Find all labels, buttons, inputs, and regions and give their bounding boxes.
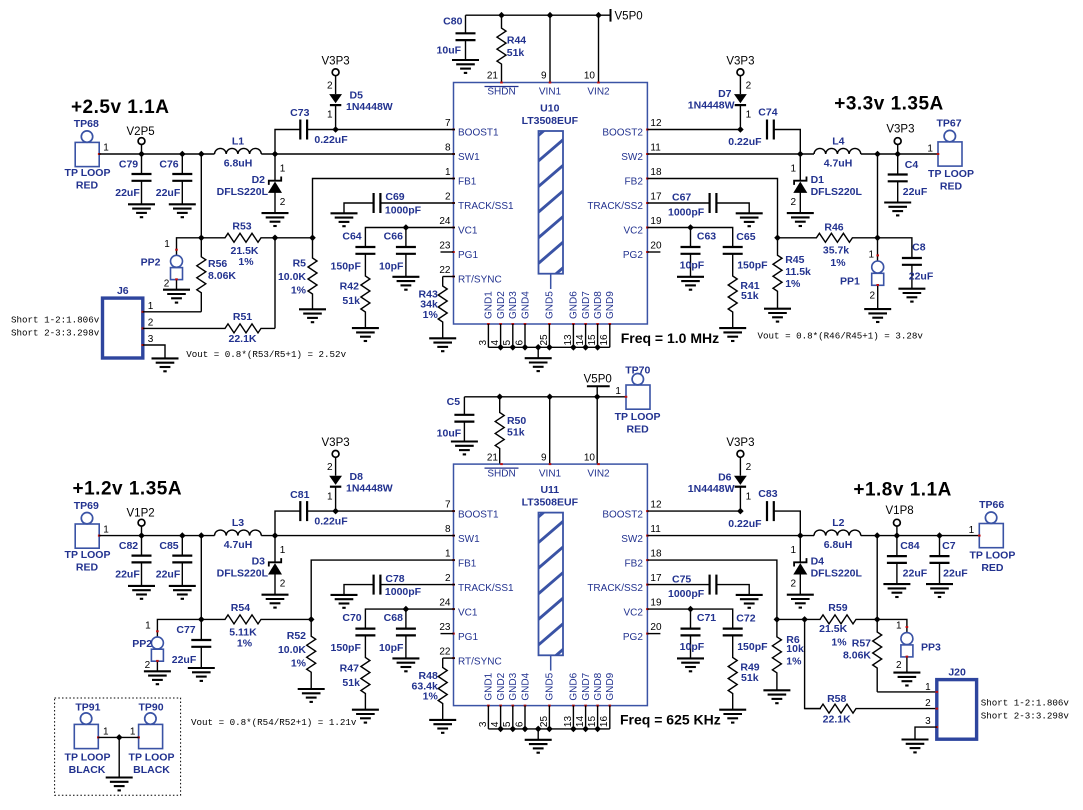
svg-text:7: 7 <box>445 118 451 129</box>
ground for R41 <box>719 328 746 341</box>
junction R58 tap <box>801 616 808 623</box>
svg-text:5.11K: 5.11K <box>229 627 257 639</box>
wire C74 down to SW2 node <box>774 130 801 155</box>
wire test points to ground <box>118 737 120 777</box>
svg-text:0.22uF: 0.22uF <box>728 518 762 530</box>
svg-text:21.5K: 21.5K <box>230 245 258 257</box>
svg-text:2: 2 <box>280 197 286 208</box>
junction V2P5/C79 <box>138 151 145 158</box>
svg-text:16: 16 <box>599 716 610 728</box>
svg-text:13: 13 <box>563 334 574 346</box>
terminal V3P3 at D7 <box>726 56 754 95</box>
svg-text:VC1: VC1 <box>458 607 478 618</box>
svg-text:FB2: FB2 <box>625 177 644 188</box>
svg-text:51k: 51k <box>507 427 525 439</box>
svg-text:GND6: GND6 <box>569 291 580 319</box>
svg-text:22: 22 <box>439 265 451 276</box>
svg-text:R56: R56 <box>208 258 227 270</box>
ground for J6 pin 3 <box>152 358 179 371</box>
svg-text:+3.3v 1.35A: +3.3v 1.35A <box>834 94 944 115</box>
svg-text:R42: R42 <box>340 281 359 293</box>
svg-text:1N4448W: 1N4448W <box>346 101 393 113</box>
junction SW2 node <box>797 151 804 158</box>
junction dots on ground bus <box>497 344 601 351</box>
svg-text:RED: RED <box>981 562 1004 574</box>
svg-text:PP1: PP1 <box>840 275 860 287</box>
test point TP69 TP LOOP RED <box>65 500 111 574</box>
svg-text:1: 1 <box>927 144 933 155</box>
svg-text:V1P2: V1P2 <box>127 508 155 520</box>
svg-text:1000pF: 1000pF <box>668 206 705 218</box>
resistor R58 22.1K <box>805 693 937 726</box>
svg-text:GND1: GND1 <box>484 291 495 319</box>
svg-text:1: 1 <box>746 110 752 121</box>
svg-text:2: 2 <box>145 660 151 671</box>
svg-text:C8: C8 <box>912 242 926 254</box>
junction R5/FB1 <box>309 235 316 242</box>
resistor R46 35.7k 1% <box>778 222 878 269</box>
capacitor C68 10pF <box>379 609 416 658</box>
ground for C5 <box>451 442 478 455</box>
svg-text:0.22uF: 0.22uF <box>314 134 348 146</box>
svg-text:R5: R5 <box>293 258 307 270</box>
svg-text:TRACK/SS2: TRACK/SS2 <box>587 583 643 594</box>
svg-text:C66: C66 <box>384 231 403 243</box>
pin loop PP1 <box>840 238 884 309</box>
ground for C77 <box>188 668 215 681</box>
svg-text:L2: L2 <box>832 517 844 529</box>
wire FB2 pin 18 to divider U11 <box>647 560 777 619</box>
svg-text:1%: 1% <box>237 638 253 650</box>
capacitor C4 22uF <box>888 154 928 203</box>
wire PG2 stub pin 20 <box>647 633 660 635</box>
svg-text:1000pF: 1000pF <box>385 205 422 217</box>
capacitor C84 22uF <box>887 536 928 585</box>
test point TP91 TP LOOP BLACK <box>65 702 111 776</box>
svg-text:150pF: 150pF <box>331 642 362 654</box>
junction VIN2/TP70 on U11 rail <box>594 394 601 401</box>
resistor R41 51k <box>728 254 760 328</box>
svg-text:2: 2 <box>746 81 752 92</box>
svg-text:FB1: FB1 <box>458 177 477 188</box>
capacitor C64 150pF <box>331 231 376 273</box>
svg-text:C68: C68 <box>384 612 403 624</box>
svg-text:17: 17 <box>650 191 662 202</box>
capacitor C85 22uF <box>156 536 193 586</box>
svg-text:10pF: 10pF <box>680 260 705 272</box>
svg-text:2: 2 <box>164 278 170 289</box>
wire VC2 pin 19 to C63/C65 <box>647 228 732 248</box>
capacitor C63 10pF <box>680 228 717 277</box>
svg-text:0.22uF: 0.22uF <box>314 516 348 528</box>
svg-text:1%: 1% <box>786 655 802 667</box>
svg-text:1000pF: 1000pF <box>385 586 422 598</box>
resistor R47 51k <box>340 635 370 709</box>
ground for R43 <box>429 338 456 351</box>
svg-text:TP90: TP90 <box>138 702 163 714</box>
svg-text:V5P0: V5P0 <box>615 10 643 22</box>
wire VIN2 pin 10 U11 <box>596 397 598 464</box>
svg-text:TP LOOP: TP LOOP <box>969 550 1015 562</box>
wire SW1 node up to C73 <box>275 130 300 155</box>
ground for C80 <box>452 60 479 73</box>
capacitor C82 22uF <box>115 536 151 586</box>
resistor R50 51k <box>495 397 526 464</box>
resistor R49 51k <box>728 635 760 709</box>
svg-text:D6: D6 <box>718 472 732 484</box>
wire L3 to SW1 pin 8 U11 <box>261 535 455 537</box>
svg-text:1N4448W: 1N4448W <box>688 483 735 495</box>
ground for D3 <box>262 595 289 608</box>
ground for C84 <box>883 584 910 597</box>
svg-text:14: 14 <box>575 716 586 728</box>
svg-text:+1.2v 1.35A: +1.2v 1.35A <box>73 479 183 500</box>
svg-text:22uF: 22uF <box>156 569 181 581</box>
junction SW1 node U11 <box>272 532 279 539</box>
diode D2 DFLS220L <box>217 154 286 213</box>
ground for R49 <box>719 710 746 723</box>
svg-text:18: 18 <box>650 549 662 560</box>
junction R52/FB1 U11 <box>308 616 315 623</box>
junction SW1 node <box>272 151 279 158</box>
diode D3 DFLS220L <box>217 536 286 595</box>
svg-text:TP LOOP: TP LOOP <box>129 751 175 763</box>
terminal V1P2 <box>127 508 155 536</box>
svg-text:22uF: 22uF <box>909 270 934 282</box>
svg-text:1: 1 <box>868 249 874 260</box>
svg-text:GND5: GND5 <box>545 291 556 319</box>
wire VC1 pin 24 to C70/C68 <box>365 609 455 629</box>
capacitor C78 1000pF <box>344 573 455 598</box>
ground for C4 <box>884 203 911 216</box>
svg-text:R44: R44 <box>507 35 526 47</box>
terminal V2P5 <box>127 126 155 154</box>
svg-text:15: 15 <box>587 334 598 346</box>
ground for PP2 <box>163 290 190 303</box>
ground for R42 <box>352 328 379 341</box>
svg-text:23: 23 <box>439 622 451 633</box>
svg-text:1%: 1% <box>423 690 439 702</box>
svg-text:13: 13 <box>563 716 574 728</box>
capacitor C77 22uF <box>172 619 212 668</box>
svg-text:22uF: 22uF <box>115 569 140 581</box>
svg-text:1N4448W: 1N4448W <box>688 100 735 112</box>
svg-text:DFLS220L: DFLS220L <box>217 186 269 198</box>
terminal V3P3 at D8 <box>322 437 350 476</box>
svg-text:C7: C7 <box>942 540 956 552</box>
svg-text:DFLS220L: DFLS220L <box>811 568 863 580</box>
wire GND pins to ground bus <box>488 706 609 740</box>
svg-text:1N4448W: 1N4448W <box>346 483 393 495</box>
svg-text:GND4: GND4 <box>520 672 531 700</box>
svg-text:10.0K: 10.0K <box>278 271 306 283</box>
wire FB1 pin 1 to divider U11 <box>311 560 455 619</box>
junction TP91/TP90 ground <box>116 734 123 741</box>
junction R59/R57/PP3 <box>874 616 881 623</box>
svg-text:1: 1 <box>615 386 621 397</box>
capacitor C81 0.22uF <box>290 489 348 528</box>
svg-text:TRACK/SS1: TRACK/SS1 <box>458 201 514 212</box>
test point TP66 TP LOOP RED <box>969 499 1016 574</box>
junction C66 on VC1 <box>403 224 410 231</box>
svg-text:1: 1 <box>164 239 170 250</box>
svg-text:6.8uH: 6.8uH <box>824 539 853 551</box>
svg-text:R51: R51 <box>233 311 252 323</box>
svg-text:1%: 1% <box>831 636 847 648</box>
svg-text:10uF: 10uF <box>437 427 462 439</box>
svg-text:20: 20 <box>650 622 662 633</box>
junction C76 <box>179 151 186 158</box>
svg-text:51k: 51k <box>507 47 525 59</box>
svg-text:0.22uF: 0.22uF <box>728 136 762 148</box>
op-amp U10 LT3508EUF dual switching regulator IC body <box>439 71 662 346</box>
svg-text:R58: R58 <box>827 693 846 705</box>
svg-text:RT/SYNC: RT/SYNC <box>458 656 502 667</box>
junction R46/PP1/C8 <box>874 235 881 242</box>
svg-text:TP91: TP91 <box>75 702 100 714</box>
wire J6 pin 3 to ground <box>143 345 165 358</box>
svg-text:V5P0: V5P0 <box>584 373 612 385</box>
ground for U11 GND bus <box>525 740 552 753</box>
svg-text:C72: C72 <box>736 613 755 625</box>
svg-text:R47: R47 <box>340 662 359 674</box>
svg-text:1: 1 <box>280 545 286 556</box>
svg-text:U10: U10 <box>540 103 559 115</box>
junction R44 on V5P0 rail <box>498 12 505 19</box>
wire FB2 pin 18 to divider <box>647 179 777 238</box>
svg-text:1: 1 <box>746 491 752 502</box>
svg-text:12: 12 <box>650 500 662 511</box>
svg-text:RT/SYNC: RT/SYNC <box>458 275 502 286</box>
svg-text:GND3: GND3 <box>508 291 519 319</box>
svg-text:22uF: 22uF <box>903 186 928 198</box>
svg-text:TP LOOP: TP LOOP <box>65 167 111 179</box>
svg-text:8.06K: 8.06K <box>843 649 871 661</box>
ground for C78 <box>331 595 358 608</box>
resistor R57 8.06K <box>843 619 882 692</box>
ground for C66 <box>392 277 419 290</box>
junction dots on ground bus <box>497 726 601 733</box>
wire feedback tap down to R53 <box>200 154 202 238</box>
svg-text:BLACK: BLACK <box>69 764 106 776</box>
wire BOOST2 pin 12 to D7 <box>647 129 740 131</box>
svg-text:VC2: VC2 <box>623 607 643 618</box>
svg-text:DFLS220L: DFLS220L <box>811 186 863 198</box>
diode D1 DFLS220L <box>790 154 862 213</box>
svg-text:BOOST2: BOOST2 <box>602 509 643 520</box>
svg-text:SHDN: SHDN <box>487 87 515 98</box>
svg-text:2: 2 <box>445 191 451 202</box>
capacitor C65 150pF <box>723 231 768 272</box>
inductor L2 6.8uH <box>814 517 861 551</box>
svg-text:2: 2 <box>148 318 154 329</box>
junction V1P2/C82 <box>138 532 145 539</box>
svg-text:Short 1-2:1.806v: Short 1-2:1.806v <box>11 315 100 326</box>
svg-text:LT3508EUF: LT3508EUF <box>522 115 579 127</box>
svg-text:C80: C80 <box>443 16 462 28</box>
svg-text:TRACK/SS1: TRACK/SS1 <box>458 583 514 594</box>
svg-text:V3P3: V3P3 <box>726 56 754 68</box>
capacitor C7 22uF <box>930 536 969 585</box>
ground for C67 <box>736 213 763 226</box>
svg-text:PP2: PP2 <box>141 257 161 269</box>
svg-text:SW2: SW2 <box>621 534 643 545</box>
terminal V3P3 output <box>886 123 914 154</box>
wire FB1 pin 1 to divider <box>313 179 456 238</box>
svg-text:Freq = 1.0 MHz: Freq = 1.0 MHz <box>621 330 719 346</box>
ground for D2 <box>262 213 289 226</box>
wire feedback tap down to R54 <box>200 536 202 620</box>
svg-text:GND8: GND8 <box>593 672 604 700</box>
svg-text:SHDN: SHDN <box>487 468 515 479</box>
note short options for J20 <box>981 698 1070 722</box>
svg-text:150pF: 150pF <box>331 261 362 273</box>
svg-text:GND2: GND2 <box>496 291 507 319</box>
svg-text:VIN1: VIN1 <box>539 87 562 98</box>
svg-text:V1P8: V1P8 <box>886 505 914 517</box>
svg-text:C69: C69 <box>385 191 404 203</box>
svg-text:V3P3: V3P3 <box>886 123 914 135</box>
junction R45/R46 <box>774 235 781 242</box>
ground for C79 <box>128 204 155 217</box>
svg-text:19: 19 <box>650 598 662 609</box>
svg-text:22: 22 <box>439 647 451 658</box>
svg-text:51k: 51k <box>741 672 759 684</box>
svg-text:GND2: GND2 <box>496 672 507 700</box>
svg-text:TP LOOP: TP LOOP <box>65 751 111 763</box>
ground for R5 <box>299 309 326 322</box>
svg-text:1%: 1% <box>785 278 801 290</box>
test point TP90 TP LOOP BLACK <box>129 702 175 776</box>
svg-text:VC2: VC2 <box>623 226 643 237</box>
svg-text:R52: R52 <box>287 630 306 642</box>
svg-text:GND1: GND1 <box>484 672 495 700</box>
terminal V1P8 <box>886 505 914 536</box>
wire J20 pin 3 to ground <box>915 727 937 739</box>
svg-text:Vout = 0.8*(R53/R5+1) = 2.52v: Vout = 0.8*(R53/R5+1) = 2.52v <box>186 349 346 360</box>
svg-text:18: 18 <box>650 167 662 178</box>
svg-text:1: 1 <box>925 682 931 693</box>
svg-text:DFLS220L: DFLS220L <box>217 568 269 580</box>
svg-text:BOOST1: BOOST1 <box>458 128 499 139</box>
ground for C69 <box>331 213 358 226</box>
svg-text:3: 3 <box>148 334 154 345</box>
resistor R52 10.0K 1% <box>278 619 316 689</box>
svg-text:GND9: GND9 <box>605 291 616 319</box>
capacitor C67 1000pF <box>647 192 749 219</box>
svg-text:C73: C73 <box>290 107 309 119</box>
terminal V3P3 at D6 <box>726 437 754 476</box>
resistor R56 8.06K <box>197 238 237 312</box>
svg-text:3: 3 <box>925 716 931 727</box>
svg-text:TP LOOP: TP LOOP <box>65 549 111 561</box>
junction C63 on VC2 <box>687 224 694 231</box>
svg-text:R54: R54 <box>231 602 250 614</box>
ground for R48 <box>429 720 456 733</box>
svg-text:C75: C75 <box>672 573 691 585</box>
svg-text:2: 2 <box>925 698 931 709</box>
svg-text:4.7uH: 4.7uH <box>824 157 853 169</box>
svg-text:R59: R59 <box>828 602 847 614</box>
capacitor C71 10pF <box>680 609 717 658</box>
ground for C63 <box>677 277 704 290</box>
svg-text:1%: 1% <box>291 285 307 297</box>
junction VIN1 on U11 rail <box>546 394 553 401</box>
svg-text:22uF: 22uF <box>903 568 928 580</box>
svg-text:D8: D8 <box>350 471 364 483</box>
svg-text:C4: C4 <box>905 159 919 171</box>
capacitor C5 10uF <box>437 396 475 442</box>
svg-text:17: 17 <box>650 573 662 584</box>
inductor L4 4.7uH <box>814 135 861 169</box>
svg-text:21: 21 <box>487 452 499 463</box>
resistor R48 63.4k 1% <box>412 658 455 720</box>
svg-text:PP3: PP3 <box>921 642 941 654</box>
svg-text:R45: R45 <box>785 254 804 266</box>
resistor R59 21.5K 1% <box>777 602 877 649</box>
ground for C7 <box>926 584 953 597</box>
connector J20 <box>925 666 976 739</box>
diode D6 1N4448W <box>688 462 752 511</box>
svg-text:20: 20 <box>650 240 662 251</box>
svg-text:Short 2-3:3.298v: Short 2-3:3.298v <box>981 711 1070 722</box>
svg-text:GND9: GND9 <box>605 672 616 700</box>
svg-text:2: 2 <box>327 462 333 473</box>
junction SW2 node U11 <box>797 532 804 539</box>
diode D4 DFLS220L <box>790 536 862 595</box>
svg-text:SW2: SW2 <box>621 152 643 163</box>
svg-text:Vout = 0.8*(R46/R45+1) = 3.28v: Vout = 0.8*(R46/R45+1) = 3.28v <box>758 330 924 341</box>
svg-text:D4: D4 <box>811 556 825 568</box>
svg-text:10: 10 <box>584 452 596 463</box>
svg-text:VIN2: VIN2 <box>587 87 610 98</box>
svg-text:15: 15 <box>587 716 598 728</box>
svg-text:GND4: GND4 <box>520 291 531 319</box>
svg-text:1: 1 <box>103 143 109 154</box>
svg-text:24: 24 <box>439 216 451 227</box>
diode D8 1N4448W <box>327 462 393 511</box>
svg-text:23: 23 <box>439 240 451 251</box>
wire V5P0 rail for U11 <box>464 396 626 398</box>
junction C7 <box>936 532 943 539</box>
inductor L1 6.8uH <box>215 135 262 169</box>
svg-text:1%: 1% <box>830 257 846 269</box>
svg-text:1: 1 <box>790 164 796 175</box>
svg-text:3: 3 <box>478 340 489 346</box>
svg-text:5: 5 <box>502 721 513 727</box>
resistor R5 10.0K 1% <box>278 238 317 309</box>
svg-text:Short 1-2:1.806v: Short 1-2:1.806v <box>981 698 1070 709</box>
svg-text:V3P3: V3P3 <box>322 56 350 68</box>
svg-text:10uF: 10uF <box>437 45 462 57</box>
svg-text:14: 14 <box>575 334 586 346</box>
svg-text:L4: L4 <box>832 135 844 147</box>
svg-text:10.0K: 10.0K <box>278 644 306 656</box>
svg-text:J20: J20 <box>948 666 966 678</box>
svg-text:C83: C83 <box>758 488 777 500</box>
wire R57 to J20 pin 1 <box>877 691 937 693</box>
capacitor C72 150pF <box>723 613 768 654</box>
svg-text:2: 2 <box>790 197 796 208</box>
ground for C71 <box>677 658 704 671</box>
svg-text:V3P3: V3P3 <box>726 437 754 449</box>
svg-text:C85: C85 <box>159 540 178 552</box>
pin loop PP2 lower <box>132 619 201 671</box>
capacitor C74 0.22uF <box>728 106 777 148</box>
svg-text:GND3: GND3 <box>508 672 519 700</box>
dotted outline box for black test points <box>55 698 181 795</box>
svg-text:GND6: GND6 <box>569 672 580 700</box>
